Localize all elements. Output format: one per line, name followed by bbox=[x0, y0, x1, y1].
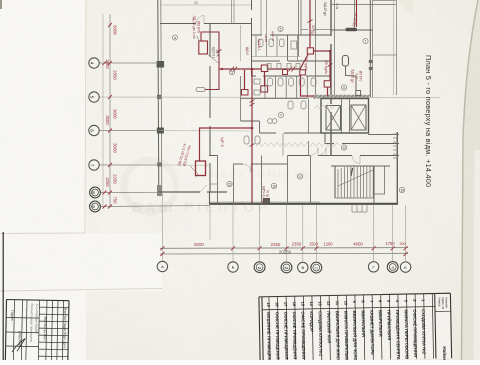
title block horizontal lines right section bbox=[38, 307, 68, 357]
tone edge below white area bbox=[0, 289, 162, 292]
partition x283 lower bbox=[282, 133, 284, 156]
stair left wall bbox=[334, 166, 336, 198]
wall y29 segment left of x331 bbox=[301, 29, 331, 31]
room number circle 15 bbox=[227, 181, 232, 186]
bottom extension line D bbox=[392, 205, 394, 261]
toilet stall partition 5 bbox=[306, 76, 308, 99]
red drop between boxes bbox=[264, 72, 266, 86]
elevator shaft left X diagonals bbox=[326, 106, 341, 131]
window ticks wall x370 bbox=[369, 60, 373, 63]
fixtures lower toilet room bbox=[244, 136, 249, 144]
red stub below box 2 bbox=[327, 88, 329, 97]
toilet fixture 4 bbox=[299, 78, 304, 86]
red drop along wall x300 bbox=[301, 75, 315, 96]
toilet fixture 2 bbox=[278, 78, 283, 86]
toilet block bottom wall y121 left bbox=[241, 120, 260, 122]
sheet frame vertical line bbox=[2, 232, 4, 360]
red panel box SHCHE bbox=[196, 161, 206, 176]
red upper-left room loop bbox=[201, 32, 219, 90]
bottom extension line V1 bbox=[286, 205, 288, 261]
room number circle 16 bbox=[271, 183, 276, 188]
door swing top-left bbox=[196, 16, 204, 24]
crease edge of overlay sheet vertical bbox=[85, 0, 86, 233]
wall x308 y98-155 bbox=[308, 99, 310, 156]
red box near toilets lower bbox=[261, 86, 268, 92]
table header cell text bbox=[435, 310, 451, 312]
left exterior wall outer line bbox=[158, 0, 159, 192]
door swing arc corridor 5 bbox=[352, 156, 360, 164]
room partition x233 lower bbox=[233, 164, 235, 204]
toilet block left wall x240 bbox=[240, 76, 242, 121]
room number circle 3 bbox=[229, 69, 234, 74]
interior wall x251 top bbox=[251, 0, 253, 76]
long interior wall x210 bbox=[209, 24, 211, 193]
door leaf diagonal lower-left bbox=[200, 185, 207, 192]
room partition x310 lower bbox=[310, 156, 312, 205]
stalls bottom wall y98.6 bbox=[241, 98, 308, 100]
upper stall partition c bbox=[276, 36, 278, 57]
red riser line x310 bbox=[309, 0, 311, 48]
faint partition x240 upper bbox=[240, 25, 242, 61]
room partition x287 lower bbox=[287, 156, 289, 205]
grid bubble 8 double ring bbox=[90, 187, 101, 198]
upper stall wall x287 bbox=[287, 35, 289, 61]
crease edge of overlay sheet horizontal bbox=[0, 232, 86, 235]
grid bubble E bbox=[400, 262, 410, 272]
bottom extension line E bbox=[405, 205, 407, 261]
bottom dimension line 2 bbox=[160, 252, 408, 255]
room bottom wall y133 bbox=[260, 132, 332, 134]
pier block left wall bottom bbox=[157, 185, 162, 196]
grid bubble B1 double bbox=[254, 262, 265, 273]
toilets mid wall y61 bbox=[252, 60, 332, 62]
grid bubble G bbox=[368, 262, 378, 272]
partition x297 sink room bbox=[297, 35, 299, 61]
grid bubble 9 double ring bbox=[90, 201, 101, 212]
bottom exterior wall y204 bbox=[210, 203, 398, 205]
corridor wall y155 bbox=[209, 155, 399, 157]
stalls bottom wall y56 bbox=[252, 56, 301, 58]
title block vertical lines bbox=[13, 300, 63, 361]
elevator shaft left bbox=[326, 106, 341, 131]
grid bubble D double bbox=[387, 262, 398, 273]
table outer border bbox=[259, 293, 452, 362]
grid line axis 7 bbox=[99, 164, 161, 166]
toilet stall partition 2 bbox=[275, 76, 277, 99]
upper toilet fixture c bbox=[280, 39, 285, 47]
right exterior wall lower x397 bbox=[396, 132, 398, 204]
red path top-right room bbox=[356, 0, 358, 27]
table number row bottom line bbox=[262, 307, 435, 310]
extra extension below wall x210 bbox=[209, 205, 211, 240]
top-right partition y30 bbox=[331, 29, 373, 31]
left dimension line total bbox=[102, 14, 104, 207]
stair top wall y166 bbox=[331, 165, 390, 167]
lobby wall return x325 bbox=[324, 133, 326, 144]
small box near wall y91 bbox=[356, 91, 361, 96]
grid bubble 7 bbox=[89, 160, 99, 170]
white left margin strip bbox=[0, 0, 86, 360]
step wall x209 bbox=[209, 192, 211, 205]
elevator shaft right bbox=[351, 105, 366, 130]
partition pair x231-234 top bbox=[232, 0, 235, 24]
balcony outline bbox=[373, 1, 397, 96]
red small box below riser box bbox=[300, 70, 306, 75]
toilet fixture 3 bbox=[289, 78, 294, 86]
leader from box to label bbox=[206, 53, 219, 64]
upper stall partition a bbox=[255, 36, 257, 57]
grid line axis 8 bbox=[99, 191, 160, 193]
dark door leaf pill on y30 wall bbox=[346, 28, 358, 32]
wall x315 top bbox=[315, 0, 317, 95]
table paper lightening bbox=[259, 293, 452, 362]
grid line axis 6 bbox=[99, 130, 161, 132]
bottom extension line V bbox=[302, 205, 304, 261]
wall y134 under core right bbox=[368, 134, 399, 136]
red diagonal to horizontal run bbox=[269, 55, 309, 70]
toilets wall y76 bbox=[252, 75, 332, 77]
red upper-left room box bbox=[199, 41, 208, 54]
toilet fixture 1 bbox=[268, 78, 273, 86]
left dim red ticks bbox=[103, 23, 113, 209]
table row names rotated bbox=[266, 309, 427, 365]
upper toilet fixture a bbox=[259, 39, 264, 47]
red junction box 2 bbox=[324, 81, 330, 87]
elevator core outer walls bbox=[321, 99, 369, 134]
circled room number 5 top bbox=[278, 26, 283, 31]
elevator shaft right X diagonals bbox=[351, 105, 366, 130]
stair up-arrow slash bbox=[351, 168, 353, 176]
grid line axis 9 bbox=[99, 206, 210, 207]
round fixture with dot bbox=[278, 112, 283, 117]
corridor glass zigzag wall bbox=[256, 143, 340, 147]
elevator core top hatched wall bbox=[313, 95, 369, 99]
small room wall y184 bbox=[210, 183, 218, 185]
grid bubble 4 bbox=[89, 58, 99, 68]
upper stall partition b bbox=[266, 36, 268, 57]
fixture pill at leader end bbox=[196, 88, 205, 92]
step wall x259 bbox=[259, 121, 261, 133]
toilet fixture 5 bbox=[311, 78, 316, 86]
red trunk down x252 bbox=[200, 69, 253, 161]
partition x299 top bbox=[299, 0, 302, 56]
bottom wall inner line bbox=[210, 201, 320, 203]
top-left edge dark mark bbox=[0, 0, 2, 9]
right paper fold shaded area bbox=[462, 0, 480, 360]
top-left partition wall y23 bbox=[160, 23, 251, 25]
top-left faint wall line y5 bbox=[161, 4, 251, 6]
elevator core divider wall bbox=[342, 99, 350, 134]
bottom dim red ticks bbox=[160, 246, 407, 256]
red box on horizontal x283 bbox=[283, 70, 288, 75]
red junction box at 310,50 bbox=[307, 48, 313, 54]
grid bubble V bbox=[298, 262, 308, 272]
door swing arc corridor 4 bbox=[318, 148, 326, 156]
corridor glass zigzag wall short bbox=[314, 105, 334, 109]
stair bottom line bbox=[335, 197, 374, 199]
balcony inner line bbox=[393, 1, 395, 95]
red run to wall left bbox=[219, 68, 261, 70]
path pill to box bbox=[346, 66, 357, 91]
white bottom-left area bbox=[0, 233, 162, 291]
toilet stall partition 4 bbox=[296, 76, 298, 99]
fixture pill vertical dark bbox=[342, 56, 348, 67]
grid line axis 5 long bbox=[99, 96, 440, 99]
left exterior wall inner line bbox=[161, 0, 162, 192]
entry steps below bottom wall bbox=[352, 205, 367, 213]
upper sink fixture bbox=[291, 41, 297, 49]
right edge bright sliver bbox=[474, 150, 480, 360]
toilet stall partition 1 bbox=[264, 76, 266, 99]
bottom extension line B bbox=[232, 205, 234, 261]
middle room top wall y164 bbox=[234, 163, 288, 165]
grid bubble A bbox=[157, 261, 167, 271]
right exterior wall top inner bbox=[372, 0, 374, 97]
red junction dots bbox=[221, 50, 331, 130]
room number circle 12 bbox=[341, 145, 346, 150]
bottom extension line G1 bbox=[315, 205, 317, 261]
room number circle 8 bbox=[341, 85, 346, 90]
red box near toilets top bbox=[261, 65, 268, 72]
corridor south wall x217 bbox=[217, 156, 219, 205]
room number circle 19 bbox=[399, 187, 404, 192]
red circuit hash marks bbox=[217, 20, 333, 147]
bottom extension line A bbox=[161, 193, 163, 261]
stair diagonal break line bbox=[338, 170, 373, 186]
top-right partition y5 bbox=[331, 4, 396, 6]
parallel wall x334 bbox=[334, 0, 336, 95]
grid bubble 6 bbox=[89, 125, 99, 135]
upper toilet fixture b bbox=[269, 39, 274, 47]
toilets top wall y35 bbox=[252, 34, 332, 36]
red drop x244 with box bbox=[244, 70, 246, 90]
grid bubble B bbox=[228, 262, 238, 272]
bottom-left wall y192 bbox=[158, 191, 227, 193]
lobby wall y143 bbox=[325, 143, 399, 145]
circled number top-right room bbox=[363, 38, 368, 43]
door swing arc room mid bbox=[243, 164, 251, 172]
tick on left wall at axis 5 bbox=[157, 95, 161, 99]
left dimension line segments bbox=[109, 14, 111, 207]
title block horizontal lines left section bbox=[6, 318, 40, 347]
vent shaft walls x261-266 top bbox=[261, 0, 267, 35]
red branch right then down x330 bbox=[314, 51, 330, 80]
column mark on left wall at axis 4 bbox=[157, 61, 165, 68]
bottom extension line G bbox=[373, 205, 375, 261]
grid bubble V1 double bbox=[281, 262, 292, 273]
watermark circle logo bbox=[124, 160, 176, 212]
radiator rect on bottom wall bbox=[263, 198, 270, 203]
elevator core top wall hatch lines bbox=[314, 95, 370, 99]
grid bubble G1 double bbox=[311, 262, 322, 273]
bottom extension line B1 bbox=[259, 205, 261, 261]
top-right inner wall x355 bbox=[354, 0, 356, 28]
signature squiggle bbox=[12, 338, 25, 352]
sink row upper bbox=[267, 64, 271, 70]
leader line from label bbox=[197, 36, 199, 41]
room partition x261 lower bbox=[261, 156, 263, 205]
toilet stall partition 3 bbox=[285, 76, 287, 99]
stair treads bbox=[338, 167, 373, 199]
leader line lower-left bbox=[190, 166, 198, 177]
title block outer border bbox=[5, 300, 69, 362]
column mark on left wall at axis 6 bbox=[157, 128, 164, 134]
serrated ladder marks right wall bbox=[393, 134, 398, 158]
door swing arc corridor 3 bbox=[310, 148, 318, 156]
circled letter top-left room bbox=[172, 35, 177, 40]
grid line axis 4 bbox=[99, 62, 158, 64]
table row numbers rotated bbox=[266, 299, 426, 307]
stair right wall bbox=[373, 166, 375, 204]
right exterior wall top x370 bbox=[369, 0, 371, 97]
red trunk continues to bottom bbox=[251, 128, 253, 203]
room number circle 17 bbox=[297, 174, 302, 179]
bottom dimension line 1 bbox=[160, 247, 408, 250]
sinks left pair bbox=[254, 79, 260, 84]
stair landing rect bbox=[374, 166, 385, 194]
column mark on left wall at axis 7 bbox=[157, 163, 162, 167]
top-right corner shadow bbox=[396, 0, 414, 16]
sink double circle bbox=[268, 119, 273, 124]
main interior wall x331 bbox=[330, 0, 332, 155]
table column separators bbox=[269, 294, 434, 362]
grid bubble 5 bbox=[89, 92, 99, 102]
right paper fold line bbox=[462, 0, 479, 360]
